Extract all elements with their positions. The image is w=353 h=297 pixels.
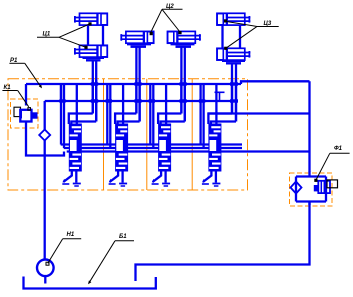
cylinder C2 right (rod right) [168, 31, 201, 43]
relief valve K1 spring block [32, 112, 37, 118]
wire: junction branch x=61 rail1 to rail2 [60, 84, 62, 101]
label P1 with leader [9, 58, 42, 88]
plugged port T-symbol in section 4 [215, 92, 225, 101]
valve section V1: branch risers [59, 84, 65, 148]
cylinder C1 upper [74, 13, 107, 25]
svg-text:Н1: Н1 [67, 232, 75, 238]
valve V4 body (spool with positions) [208, 124, 221, 172]
valve section V2: branch risers [106, 84, 112, 148]
valve V3: port link lines to cylinder pipes [158, 114, 185, 125]
wire: pump supply riser x=44.7 with check valve [44, 101, 46, 260]
valve V3: bottom return stub with foot [162, 172, 170, 187]
tank B1 (open-top reservoir) [24, 277, 156, 289]
wire: pipes between C1 cylinders [88, 26, 103, 46]
C1 mounting yoke and pipes down to valve V1 [83, 58, 105, 122]
C2-left yoke and pipes down to valve V2 [127, 44, 151, 121]
valve V1: manual lever control [62, 172, 72, 185]
valve V4: manual lever control [202, 172, 212, 185]
valve V4: port link lines to cylinder pipes [208, 114, 236, 125]
label C2 with leaders [150, 4, 183, 35]
filter F1 element [314, 181, 330, 193]
valve V4: center feed stem [215, 84, 217, 124]
filter F1 drain box (black) [327, 180, 338, 188]
distributor block P1 boundary (dash-dot orange) [8, 79, 248, 190]
label K1 with leader [2, 85, 30, 110]
valve V1: port link lines to cylinder pipes [69, 114, 96, 125]
valve V2 body (spool with positions) [115, 124, 128, 172]
filter F1 loop piping [296, 172, 326, 206]
label B1 with leader [88, 234, 134, 284]
valve V2: manual lever control [109, 172, 119, 185]
label C1 with leaders [37, 22, 92, 49]
valve section V3: branch risers [149, 84, 155, 148]
valve V4: cylinder pipe stubs crossing rails [230, 80, 238, 122]
valve V3: center feed stem [165, 84, 167, 124]
wire: top bypass line y=81.3 to filter riser [241, 81, 310, 84]
wire: K1 riser top corner [25, 84, 27, 106]
cylinder C2 left (rod left) [120, 31, 153, 43]
C2-right yoke and pipes down to valve V3 [171, 44, 195, 121]
relief valve K1 pilot box (black) [14, 107, 21, 116]
label F1 with leader [314, 146, 349, 182]
wire: pipes between C3 cylinders [223, 26, 241, 49]
valve V3: manual lever control [152, 172, 162, 185]
pump H1 (circle) [37, 260, 54, 284]
svg-text:Ф1: Ф1 [334, 146, 343, 152]
valve V1: center feed stem [76, 84, 78, 124]
valve V2: center feed stem [122, 84, 124, 124]
check valve (diamond) on pump supply line [39, 130, 50, 141]
valve V1: cylinder pipe stubs crossing rails [91, 80, 98, 122]
wire: filter outlet down and left to tank [136, 202, 310, 282]
valve V3 body (spool with positions) [158, 124, 171, 172]
C3 mounting yoke and pipes down to valve V4 [222, 61, 245, 122]
filter F1 bypass check valve (diamond) [291, 182, 302, 194]
valve V2: bottom return stub with foot [119, 172, 127, 187]
svg-text:Ц1: Ц1 [43, 32, 51, 38]
wire: section-4 upper line y=113.5 to filter riser [208, 112, 310, 114]
cylinder C1 lower [74, 45, 107, 57]
valve V3: cylinder pipe stubs crossing rails [179, 80, 186, 122]
filter F1 boundary (dashed orange) [290, 173, 333, 206]
wire: pressure rail 1 (y=84) from K1 riser corner to right elbow [26, 83, 241, 85]
valve V2: port link lines to cylinder pipes [115, 114, 140, 125]
valve V4: bottom return stub with foot [212, 172, 220, 187]
cylinder C3 lower [217, 48, 250, 60]
wire: manifold m3 y=151.5 continuing to filter riser [67, 150, 310, 152]
relief valve K1 body [20, 110, 32, 122]
valve V1: bottom return stub with foot [73, 172, 81, 187]
label C3 with leaders [224, 19, 279, 50]
valve V2: cylinder pipe stubs crossing rails [134, 80, 141, 122]
wire: manifold m2 y=148 [64, 147, 242, 149]
valve section V4: branch risers [199, 84, 205, 148]
valve V1 body (spool with positions) [69, 124, 82, 172]
wire: K1 drain down-right to m3 [26, 121, 64, 156]
label H1 with leader [46, 232, 81, 265]
relief valve K1 boundary (dashed orange) [11, 99, 39, 128]
wire: filter riser x=309.5 down to filter [308, 81, 310, 172]
wire: rail 2 (y=101) [45, 100, 238, 102]
cylinder C3 upper [217, 13, 250, 25]
wire: manifold m1 y=144.5 [61, 143, 242, 145]
svg-text:Б1: Б1 [119, 234, 127, 240]
